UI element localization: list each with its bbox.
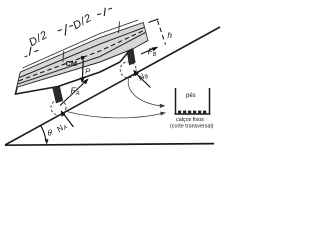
theta arc arrowhead: [45, 139, 49, 144]
svg-text:pés: pés: [186, 93, 196, 99]
svg-text:NA: NA: [55, 121, 69, 135]
plank dashed centerline L2 (CM line): [19, 30, 145, 81]
dimension tick right: [104, 8, 105, 16]
svg-text:D/2: D/2: [71, 12, 94, 32]
plank gray upper face: [17, 23, 147, 87]
tick inside plank at B position: [118, 22, 121, 34]
CM dot: [81, 56, 85, 60]
svg-text:h: h: [168, 31, 173, 40]
plank internal line L1: [20, 28, 145, 78]
foot A: [53, 86, 63, 103]
theta arc: [40, 125, 46, 141]
plank internal line L3: [18, 33, 145, 85]
normal arrow N_B: [133, 70, 150, 88]
inset box right wall: [209, 88, 211, 115]
svg-text:(corte transversal): (corte transversal): [170, 124, 214, 130]
label N_A: [55, 121, 69, 135]
svg-text:calços fixos: calços fixos: [176, 117, 204, 123]
leader curve from foot B to inset: [128, 79, 165, 109]
label D/2 right: [71, 12, 94, 32]
cleats row: [178, 111, 206, 114]
label D/2 left: [27, 29, 50, 49]
incline line: [5, 27, 220, 145]
foot B: [127, 48, 135, 65]
tick inside plank under middle tick: [63, 51, 64, 62]
leader curve from foot A to inset: [67, 112, 167, 118]
normal arrow N_A: [61, 110, 74, 127]
svg-text:D/2: D/2: [27, 29, 50, 49]
contact circle A: [51, 100, 66, 115]
svg-text:P: P: [85, 67, 90, 76]
plank thin floating line above top edge: [23, 20, 139, 68]
force arrow F_B: [141, 47, 158, 54]
dimension line dashes: [25, 8, 113, 57]
dimension tick middle: [65, 24, 66, 36]
plank internal line L4: [17, 50, 130, 87]
h dimension top tick: [149, 19, 159, 23]
force arrow F_A (long, contact A to foot B): [60, 78, 89, 105]
weight arrow P: [80, 60, 85, 84]
svg-text:FA: FA: [71, 86, 80, 98]
svg-text:CM: CM: [66, 59, 78, 68]
ground line: [5, 144, 214, 146]
inset box bottom: [175, 113, 211, 115]
dimension tick left: [29, 47, 31, 56]
svg-text:θ: θ: [48, 129, 53, 138]
plank body outline (white base): [16, 23, 148, 94]
inset box left wall: [175, 88, 177, 115]
h dimension dashed line: [158, 21, 166, 45]
contact circle B: [120, 62, 136, 78]
label N_B: [136, 70, 150, 84]
